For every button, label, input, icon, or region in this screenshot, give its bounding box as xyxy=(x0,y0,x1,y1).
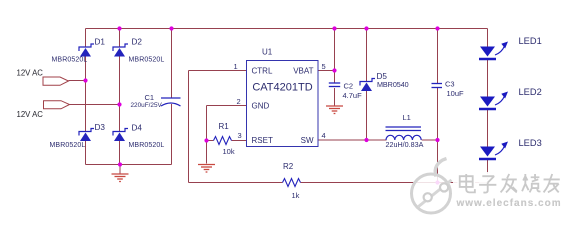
ground symbol (C2) xyxy=(326,106,343,114)
diode D1 xyxy=(79,44,94,57)
capacitor C2 xyxy=(329,83,340,87)
wire: D2 cathode to top rail xyxy=(119,29,121,48)
svg-text:RSET: RSET xyxy=(252,136,273,145)
wire: GND pin down to R1 node xyxy=(206,106,208,141)
LED1 xyxy=(479,42,508,60)
IC U1 CAT4201TD xyxy=(247,61,319,147)
junction dot top rail at D2 xyxy=(117,26,121,30)
svg-text:MBR0520L: MBR0520L xyxy=(50,142,86,149)
junction dot bottom rail at C3 xyxy=(435,180,439,184)
watermark chinese text dian xyxy=(460,174,475,192)
watermark chinese text you xyxy=(544,174,560,192)
svg-text:4: 4 xyxy=(322,131,326,140)
svg-text:3: 3 xyxy=(238,131,242,140)
svg-text:D4: D4 xyxy=(132,124,143,133)
svg-text:22uH/0.83A: 22uH/0.83A xyxy=(386,140,424,149)
svg-text:12V AC: 12V AC xyxy=(17,68,44,77)
svg-text:MBR0520L: MBR0520L xyxy=(52,57,88,64)
junction dot top rail at D5 xyxy=(364,26,368,30)
wire: D4 anode to bridge bottom xyxy=(119,141,121,165)
svg-text:CAT4201TD: CAT4201TD xyxy=(252,82,312,94)
diode D4 xyxy=(113,129,128,142)
svg-text:12V AC: 12V AC xyxy=(17,110,44,119)
svg-text:U1: U1 xyxy=(262,48,273,57)
svg-text:C3: C3 xyxy=(445,80,455,89)
resistor R1 xyxy=(214,137,232,145)
capacitor C3 xyxy=(432,84,443,88)
wire: VBAT node up to rail xyxy=(334,29,336,71)
wire: rail corner to LED1 anode xyxy=(487,29,489,47)
svg-text:R2: R2 xyxy=(283,162,294,171)
LED2 xyxy=(479,92,508,110)
wire: AC input 1 to bridge xyxy=(69,80,86,82)
wire: rail down to D5 cathode xyxy=(366,29,368,82)
wire: C1 bottom to bridge bottom xyxy=(171,104,173,165)
wire: L1 right lead xyxy=(422,139,438,141)
junction dot L1/C3 output node xyxy=(435,138,439,142)
wire: R1 node lead xyxy=(207,140,214,142)
svg-text:GND: GND xyxy=(252,102,270,111)
junction dot SW/D5 node xyxy=(364,138,368,142)
watermark text background band xyxy=(453,172,563,208)
wire: D1 anode down to AC1 node xyxy=(85,57,87,81)
svg-text:LED3: LED3 xyxy=(519,138,542,148)
watermark chinese text fa xyxy=(501,174,517,192)
wire: AC1 node to D3 cathode xyxy=(85,81,87,132)
capacitor C1 (polarized) xyxy=(161,98,181,106)
wire: bridge bottom rail xyxy=(86,164,172,166)
wire: CTRL down to bottom rail xyxy=(188,71,190,183)
wire: rail down to C3 top xyxy=(437,29,439,84)
wire: bottom rail right of R2 xyxy=(301,182,488,184)
wire: VBAT node to C2 top xyxy=(334,71,336,83)
LED3 xyxy=(479,142,508,160)
wire: D2 anode down to AC2 node xyxy=(119,57,121,105)
wire: top rail VIN xyxy=(86,28,488,30)
svg-text:L1: L1 xyxy=(403,113,411,122)
diode D5 xyxy=(360,79,375,92)
wire: D5 anode down to SW node xyxy=(366,91,368,140)
wire: CTRL pin 1 stub xyxy=(189,70,247,72)
wire: D1 cathode to top rail xyxy=(85,29,87,48)
junction dot R1 node xyxy=(204,138,208,142)
svg-text:C2: C2 xyxy=(344,82,354,91)
wire: D3 anode to bridge bottom xyxy=(85,141,87,165)
watermark logo circle xyxy=(412,159,452,214)
diode D3 xyxy=(79,129,94,142)
junction dot AC2 node xyxy=(117,102,121,106)
svg-text:10k: 10k xyxy=(223,147,235,156)
wire: C2 bottom to ground xyxy=(334,88,336,106)
wire: GND pin 2 stub xyxy=(207,105,247,107)
wire: C1 top to rail xyxy=(171,29,173,98)
svg-text:D3: D3 xyxy=(95,123,106,132)
wire: VBAT pin 5 stub xyxy=(318,70,335,72)
svg-text:4.7uF: 4.7uF xyxy=(343,91,363,100)
watermark chinese text shao xyxy=(522,174,540,192)
wire: AC2 node to D4 cathode xyxy=(119,105,121,132)
junction dot AC1 node xyxy=(83,78,87,82)
diode D2 xyxy=(113,44,128,57)
svg-text:1: 1 xyxy=(234,62,238,71)
ground symbol (R1 node) xyxy=(198,165,215,173)
svg-text:www.elecfans.com: www.elecfans.com xyxy=(456,198,562,209)
svg-text:2: 2 xyxy=(237,97,241,106)
wire: R1 to RSET pin 3 xyxy=(232,140,247,142)
wire: R1 node down to ground xyxy=(206,141,208,164)
junction dot top rail at VBAT xyxy=(332,26,336,30)
svg-text:D2: D2 xyxy=(132,38,143,47)
svg-text:CTRL: CTRL xyxy=(252,67,273,76)
junction dot VBAT pin node xyxy=(332,68,336,72)
watermark chinese text zi xyxy=(479,176,496,192)
inductor L1 xyxy=(386,127,422,140)
junction dot top rail at C1 xyxy=(169,26,173,30)
resistor R2 xyxy=(283,179,301,187)
wire: LED3 cathode to bottom rail xyxy=(487,160,489,183)
svg-text:MBR0540: MBR0540 xyxy=(377,80,409,89)
wire: LED1 cathode to LED2 anode xyxy=(487,60,489,97)
svg-text:SW: SW xyxy=(301,136,314,145)
junction dot top rail at C3 xyxy=(435,26,439,30)
svg-text:LED1: LED1 xyxy=(519,36,542,46)
svg-text:D1: D1 xyxy=(95,38,106,47)
svg-text:R1: R1 xyxy=(219,122,230,131)
svg-text:220uF/25V: 220uF/25V xyxy=(131,102,163,109)
connector J1 12V AC top xyxy=(43,77,69,85)
wire: AC input 2 to bridge xyxy=(70,104,120,106)
junction dot bridge ground node xyxy=(118,162,122,166)
connector J2 12V AC bottom xyxy=(44,101,70,109)
svg-text:LED2: LED2 xyxy=(519,87,542,97)
svg-text:10uF: 10uF xyxy=(447,89,465,98)
wire: SW pin 4 to L1 xyxy=(318,139,387,141)
wire: output node down to bottom rail xyxy=(437,140,439,183)
svg-text:VBAT: VBAT xyxy=(293,67,313,76)
svg-text:5: 5 xyxy=(322,62,326,71)
wire: bottom rail left of R2 xyxy=(189,182,283,184)
svg-text:C1: C1 xyxy=(145,93,155,102)
ground symbol (bridge) xyxy=(112,165,129,182)
svg-text:MBR0520L: MBR0520L xyxy=(129,57,165,64)
wire: C3 bottom to SW/L1 node xyxy=(437,88,439,140)
svg-text:1k: 1k xyxy=(292,191,300,200)
wire: LED2 cathode to LED3 anode xyxy=(487,110,489,147)
svg-text:MBR0520L: MBR0520L xyxy=(129,142,165,149)
